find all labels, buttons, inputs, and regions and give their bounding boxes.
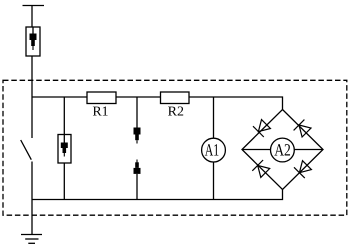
svg-text:R2: R2 <box>168 104 184 119</box>
svg-text:A2: A2 <box>274 140 291 159</box>
svg-text:R1: R1 <box>93 104 109 119</box>
svg-text:A1: A1 <box>205 140 219 159</box>
